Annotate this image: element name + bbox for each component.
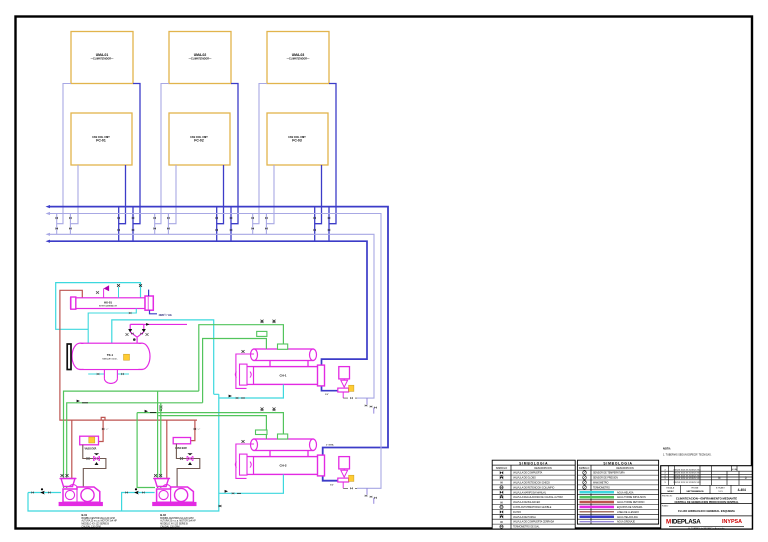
svg-text:IDEPLASA: IDEPLASA [672,519,702,526]
wire cyan tank top nozzle / long run to pumps area [28,320,219,511]
svg-text:SIMBOLOGIA: SIMBOLOGIA [603,461,632,465]
wire magenta from tank Y to right [144,323,187,325]
svg-text:4" BWA: 4" BWA [326,444,334,447]
svg-text:CH-1: CH-1 [279,374,286,378]
svg-text:N: N [500,520,502,524]
chiller 2 condenser cylinder [254,439,313,451]
svg-text:VASO EXP.: VASO EXP. [85,447,97,450]
revision strip cells [669,466,739,486]
svg-text:5: 5 [745,476,747,480]
svg-text:CH-2: CH-2 [279,464,286,468]
aux expansion tank 2 [173,438,190,444]
heat exchanger left cap [71,297,76,309]
heat exchanger HX-1 body [71,298,146,309]
wire dark aux piping pump 2 [176,444,199,487]
funnel 2 [341,469,348,477]
pump 1 suction bell [61,479,75,487]
svg-text:ALTURA 25 m.c.a. MOTOR 3x4 HP: ALTURA 25 m.c.a. MOTOR 3x4 HP [160,520,196,523]
svg-text:ALTURA 25 m.c.a. MOTOR 3x4 HP: ALTURA 25 m.c.a. MOTOR 3x4 HP [82,520,118,523]
wire green condenser supply chiller1 loop [67,339,267,489]
green flow switch box chiller1 [257,331,267,336]
wire blue riser row1 col2 [231,84,238,224]
starter/TS panel box 1 [339,367,350,379]
svg-text:DESCRIPCION: DESCRIPCION [534,467,552,470]
starter/TS panel box 2 [339,457,350,469]
wire lavender tap1 col1 [56,214,58,235]
svg-text:CENTRAL DE GENERACION PRODUCCI: CENTRAL DE GENERACION PRODUCCION CENTRAL [674,501,739,504]
svg-text:INTERCAMBIADOR: INTERCAMBIADOR [99,305,118,308]
AHU unit box row2 col2 [169,113,230,165]
wire blue tap2 col3 [314,207,316,242]
svg-text:VALVULA DE RETENCION COLUMPIO: VALVULA DE RETENCION COLUMPIO [513,486,554,489]
wire blue riser row1 col3 [329,84,336,224]
title block frame [661,466,753,529]
svg-text:1. TUBERIAS SEGUN ESPECIF. TEC: 1. TUBERIAS SEGUN ESPECIF. TECNICAS. [663,453,712,456]
tank top Y relief assembly [130,324,144,329]
svg-text:XXXXX XXX XX XXXXX XXX: XXXXX XXX XX XXXXX XXX [673,475,701,477]
wire green pump2 risers [158,391,161,488]
svg-text:CAUDAL 120 GPM: CAUDAL 120 GPM [82,525,101,528]
svg-text:FECHA:: FECHA: [692,487,699,490]
svg-text:VALVULA DE RETENCION CHECK: VALVULA DE RETENCION CHECK [513,482,550,485]
svg-text:FC-02: FC-02 [194,138,204,142]
svg-text:XXXXX XXX XX XXXXX XXX: XXXXX XXX XX XXXXX XXX [673,469,701,471]
chiller 1 interconnect nozzles [270,361,308,367]
svg-text:ESCALA:: ESCALA: [667,487,675,490]
svg-text:UMA-03: UMA-03 [292,53,305,57]
svg-text:FC-03: FC-03 [292,138,302,142]
flex drain 2 [366,488,368,495]
wire lavender tap1 col3 [252,214,254,235]
svg-text:SENSOR DE PRESION: SENSOR DE PRESION [593,478,618,480]
svg-text:VALVULA REGULADORA DE CAUDAL A: VALVULA REGULADORA DE CAUDAL AUTOM. [513,496,564,499]
svg-text:VALVULA DE COMPUERTA: VALVULA DE COMPUERTA [513,472,543,475]
wire dark aux piping pump 1 [83,445,106,487]
wire lavender riser row1 col1 [57,84,71,224]
wire cyan from HX to left drop [56,283,141,330]
svg-text:SEPTIEMBRE/05: SEPTIEMBRE/05 [686,491,704,493]
svg-text:3/4": 3/4" [330,485,334,487]
svg-text:TK-1: TK-1 [107,353,114,357]
AHU unit box row1 col2 [169,32,231,84]
svg-text:EQUIPOS DE SISTEMA: EQUIPOS DE SISTEMA [617,506,643,509]
tank TK-1 vessel body [80,343,142,369]
drain stub 1 [342,392,344,398]
wire lavender riser row1 col2 [155,84,169,224]
svg-text:40Ø1¼" HG: 40Ø1¼" HG [159,313,172,317]
HX blue outlet elbow [150,310,158,314]
svg-text:SIMBOLO: SIMBOLO [496,467,507,470]
wire blue riser row2 col1 [119,165,126,224]
TS yellow tag 2 [349,475,354,481]
svg-text:N. PLANO:: N. PLANO: [716,487,726,490]
AHU unit box row2 col3 [267,113,328,165]
chiller 1 inline device [240,364,248,385]
svg-text:BOMBA CENTRIFUGA 120 GPM: BOMBA CENTRIFUGA 120 GPM [160,517,193,520]
chiller 2 evaporator cylinder [247,457,325,475]
bus left arrowhead [46,212,51,215]
wire blue riser row1 col1 [133,84,140,224]
svg-text:TERMOMETRO DE DIAL: TERMOMETRO DE DIAL [513,526,540,529]
svg-text:B-02: B-02 [160,513,166,517]
wire cyan pump2 suction + tap [122,493,155,512]
svg-text:XXXXX XXX XX XXXXX XXX: XXXXX XXX XX XXXXX XXX [673,482,701,484]
svg-text:S/ESC: S/ESC [667,491,674,493]
wire green supply run to chiller2 [137,413,283,439]
pump 2 suction bell [155,479,169,487]
wire lavender tap2 col3 [265,214,267,235]
svg-text:SENSOR DE TEMPERATURA: SENSOR DE TEMPERATURA [593,472,625,475]
wire lavender tap2 col1 [69,214,71,235]
sight glass column [67,344,71,370]
svg-text:LINEA DE LLENADO: LINEA DE LLENADO [617,511,639,514]
HX blue inlet stub [148,290,150,296]
wire lavender tap1 col2 [154,214,156,235]
wire lavender bus top to chiller 2 drain [49,214,381,489]
svg-text:N: N [500,500,502,504]
wire red long run from HX down to pump bus [60,290,197,420]
pump 2 body [157,487,194,502]
svg-text:PLANO:: PLANO: [662,505,669,508]
svg-text:M: M [666,519,671,526]
bus left arrowhead [46,233,51,236]
wire red hop + drop to aux tank 1 [99,417,106,441]
tank bottom drain trap [88,373,129,375]
funnel 1 [341,379,348,387]
svg-text:VALVULA DE COMPUERTA CERRADA: VALVULA DE COMPUERTA CERRADA [513,521,555,524]
wire green condenser return chiller1 loop [64,325,284,488]
wire lavender riser row2 col2 [168,165,176,224]
green flow boxes chiller2 [256,430,268,435]
svg-text:TERMOMETRO: TERMOMETRO [593,487,610,489]
svg-text:A. TORRES del RIVERO y Asociad: A. TORRES del RIVERO y Asociados [688,527,725,530]
heat exchanger right cap [145,296,153,310]
pump 1 base [59,502,103,505]
svg-text:INYPSA: INYPSA [722,519,742,525]
svg-text:AGUA DRENAJE: AGUA DRENAJE [617,521,635,524]
svg-text:NOTA:: NOTA: [663,447,671,451]
svg-text:VALVULA DE PURGA: VALVULA DE PURGA [513,516,536,519]
TS yellow tag 1 [349,385,354,391]
svg-text:CAUDAL 120 GPM: CAUDAL 120 GPM [160,525,179,528]
chiller 2 interconnect nozzles [270,451,308,457]
wire cyan chiller2 suction [219,475,284,494]
wire blue riser row2 col3 [315,165,322,224]
flex drain 1 [366,398,368,405]
svg-text:—CLIMATIZADOR—: —CLIMATIZADOR— [287,58,310,61]
svg-text:AGUA TORRE IMPULSION: AGUA TORRE IMPULSION [617,496,646,499]
wire blue tap1 col1 [132,207,134,242]
drain stub 2 [342,482,344,488]
AHU unit box row1 col1 [71,32,133,84]
wire cyan chiller1 suction [219,385,284,399]
svg-text:TANQUE 1500 L: TANQUE 1500 L [102,357,118,360]
svg-text:VALVULA DE BALANCEO: VALVULA DE BALANCEO [513,501,540,504]
svg-text:AGUA HELADA: AGUA HELADA [617,491,634,494]
svg-text:XXXXX XXX XX XXXXX XXX: XXXXX XXX XX XXXXX XXX [673,473,701,475]
svg-text:4-404: 4-404 [738,488,746,492]
svg-text:HX-01: HX-01 [104,301,112,305]
svg-text:VALVULA MARIPOSA MANUAL: VALVULA MARIPOSA MANUAL [513,491,547,494]
wire blue tap1 col2 [230,207,232,242]
svg-text:VALVULA DE GLOBO: VALVULA DE GLOBO [513,477,536,480]
bus left arrowhead [46,240,51,243]
chiller 2 inline device [240,454,248,475]
wire lavender tap2 col2 [167,214,169,235]
chiller 2 left condenser water loop [236,444,254,478]
wire chilled water return bus (blue bottom) to chiller 1 [49,241,367,391]
svg-text:MANOMETRO: MANOMETRO [593,482,609,485]
svg-text:AGUA HELADA IDA: AGUA HELADA IDA [617,516,638,519]
wire blue tap1 col3 [328,207,330,242]
wire blue tap2 col2 [216,207,218,242]
svg-text:AGUA TORRE RETORNO: AGUA TORRE RETORNO [617,501,645,504]
svg-text:SIMBOLOGIA: SIMBOLOGIA [519,461,548,465]
AHU unit box row2 col1 [71,113,132,165]
svg-text:BOMBA CENTRIFUGA 120 GPM: BOMBA CENTRIFUGA 120 GPM [82,517,115,520]
wire blue tap2 col1 [118,207,120,242]
svg-text:JUNTA ANTIVIBRATORIA FLEXIBLE: JUNTA ANTIVIBRATORIA FLEXIBLE [513,506,552,509]
svg-text:FC-01: FC-01 [96,138,106,142]
svg-text:3/4": 3/4" [325,394,329,396]
svg-text:FILTRO: FILTRO [513,512,521,514]
svg-text:DESCRIPCION: DESCRIPCION [616,467,634,470]
scale/date row [681,485,732,493]
wire green return run to chiller2 [158,416,266,439]
HX cyan vent stub [118,287,120,298]
aux expansion tank 1 [80,436,99,445]
chiller 1 left condenser water loop [236,354,254,388]
wire lavender riser row2 col3 [266,165,274,224]
wire blue riser row2 col2 [217,165,224,224]
chiller 1 evaporator cylinder [247,367,325,385]
svg-text:MODELO XX-123 SERIE B: MODELO XX-123 SERIE B [160,524,188,526]
svg-text:N: N [500,481,502,485]
wire cyan pump1 suction [28,492,61,494]
svg-text:—CLIMATIZADOR—: —CLIMATIZADOR— [91,58,114,61]
legend table 2 [577,460,658,524]
svg-text:SIMBOLO: SIMBOLO [579,468,590,470]
svg-text:HOJA: HOJA [732,468,738,471]
chiller 1 condenser cylinder [254,349,313,361]
svg-text:XXXXX XXX XX XXXXX XXX: XXXXX XXX XX XXXXX XXX [673,478,701,480]
svg-text:PROYECTO:: PROYECTO: [662,496,673,498]
pump 1 body [63,487,100,502]
AHU unit box row1 col3 [267,32,329,84]
svg-text:UMA-01: UMA-01 [96,53,109,57]
svg-text:UMA-02: UMA-02 [194,53,207,57]
wire lavender riser row1 col3 [253,84,267,224]
svg-text:B-01: B-01 [82,513,88,517]
wire red riser pump 1 [71,420,73,483]
wire cyan HX drain to tank nozzle [88,309,136,344]
svg-text:MODELO XX-123 SERIE B: MODELO XX-123 SERIE B [82,524,110,526]
wire red stub to aux tank 2 [191,420,195,441]
svg-text:FLUJO HIDRAULICO GENERAL ESQUE: FLUJO HIDRAULICO GENERAL ESQUEMA [678,509,735,513]
HX relief valve stub [103,289,105,298]
wire chilled water supply bus (blue top) to chiller 2 [49,207,388,481]
bus left arrowhead [46,205,51,208]
wire red riser pump 2 [166,420,168,483]
svg-text:—CLIMATIZADOR—: —CLIMATIZADOR— [189,58,212,61]
wire lavender bus bottom to chiller 1 drain [49,234,374,398]
legend table 1 [492,460,575,529]
wire lavender riser row2 col1 [70,165,78,224]
pump 2 base [153,502,197,505]
